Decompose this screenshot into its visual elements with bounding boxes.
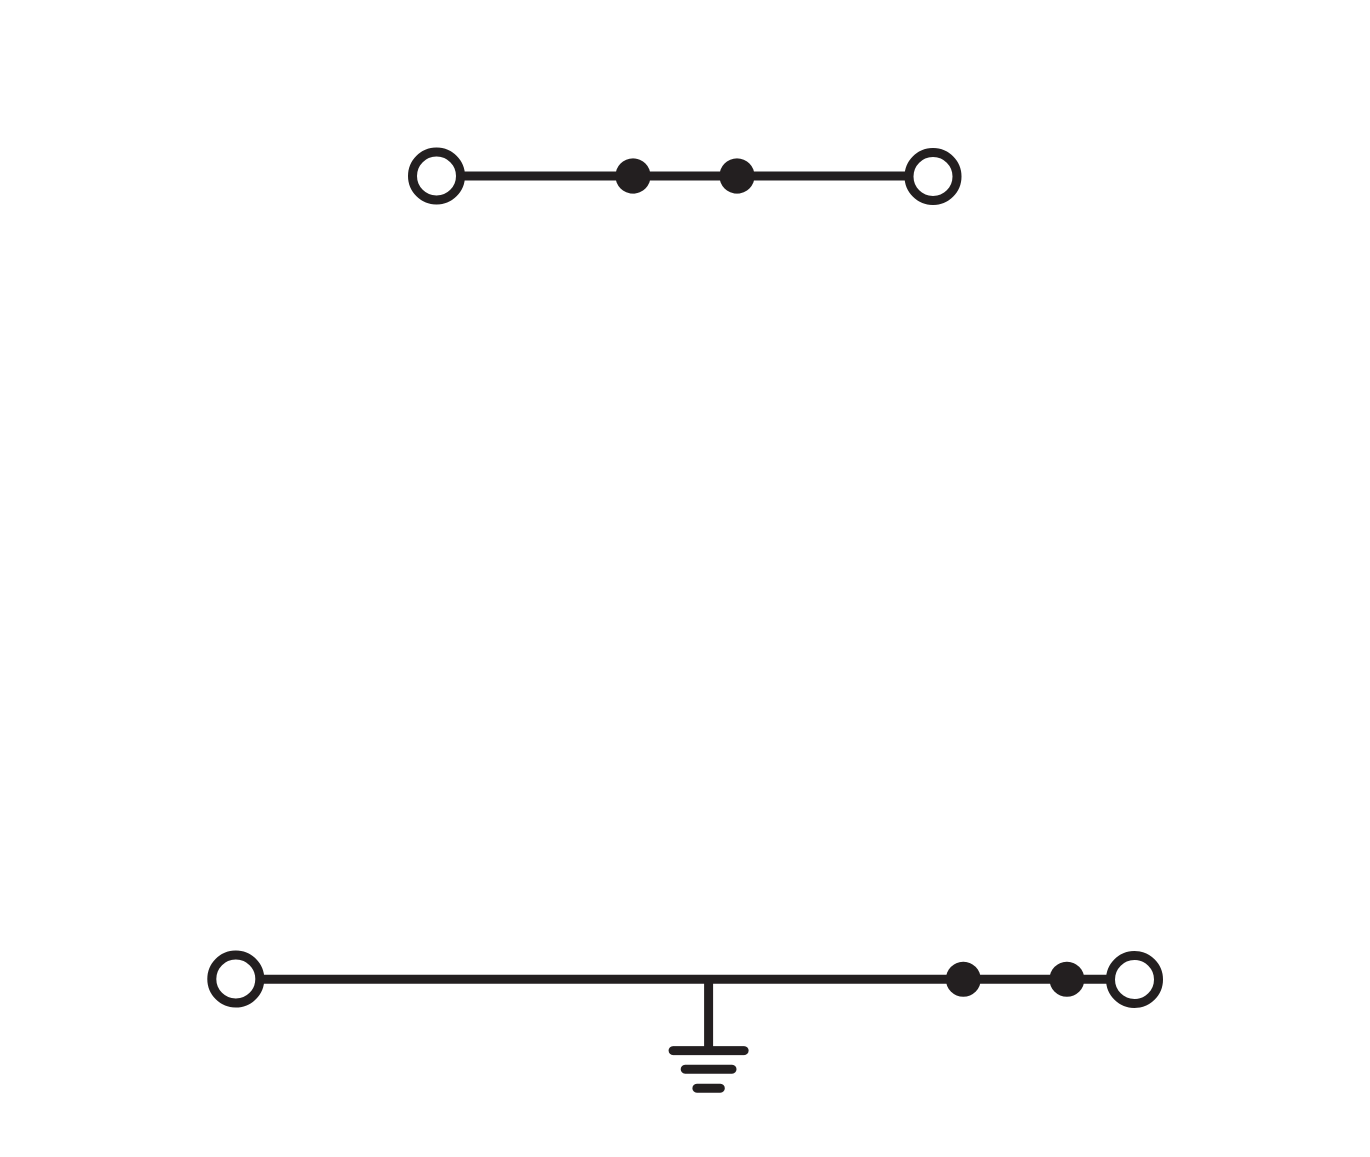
junction dot (bottom left clamp point)	[946, 962, 981, 997]
junction dot (top right clamp point)	[719, 158, 754, 193]
wire (top potential rail)	[464, 172, 905, 181]
ground (earth symbol, three bars)	[673, 1051, 744, 1089]
terminal 4 (bottom right clamp, open circle)	[1111, 956, 1159, 1004]
terminal 2 (top right clamp, open circle)	[909, 153, 957, 201]
junction dot (top left clamp point)	[615, 158, 650, 193]
terminal 3 (bottom left clamp, open circle)	[212, 955, 260, 1003]
wire (bottom ground rail)	[263, 975, 1108, 984]
wire (ground stem)	[704, 979, 713, 1053]
junction dot (bottom right clamp point)	[1049, 962, 1084, 997]
terminal 1 (top left clamp, open circle)	[413, 152, 461, 200]
